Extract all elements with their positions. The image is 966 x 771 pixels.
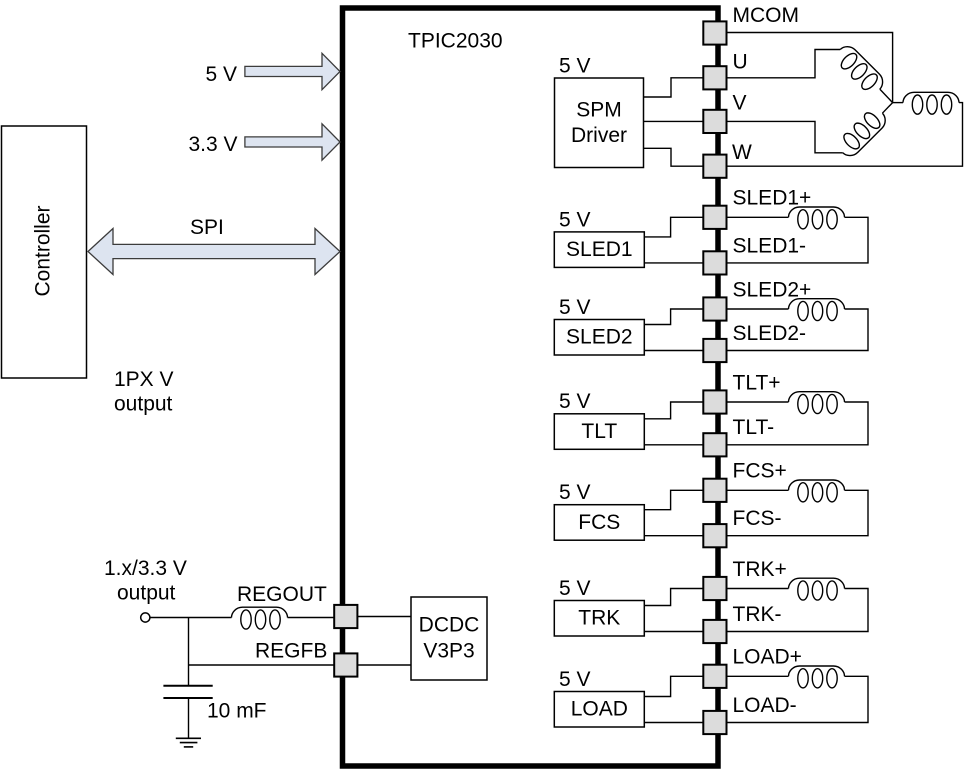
wire TRK+ pin to inductor bbox=[727, 588, 789, 590]
wire LOAD to LOAD+ pin bbox=[644, 676, 703, 696]
svg-text:TRK-: TRK- bbox=[733, 603, 782, 626]
wire TLT to TLT+ pin bbox=[644, 402, 703, 419]
wire terminal to REGOUT inductor bbox=[150, 617, 232, 619]
chip body U1 TPIC2030 bbox=[343, 8, 719, 766]
wire inductor to REGOUT pin bbox=[288, 617, 335, 619]
TRK block bbox=[554, 601, 644, 637]
svg-text:5 V: 5 V bbox=[559, 481, 591, 504]
pin TLT+ bbox=[703, 390, 726, 413]
svg-text:1.x/3.3 V: 1.x/3.3 V bbox=[104, 557, 187, 580]
pin SLED1- bbox=[703, 251, 726, 274]
svg-text:LOAD+: LOAD+ bbox=[733, 646, 802, 669]
wire SLED2+ pin to inductor bbox=[727, 308, 789, 310]
svg-text:output: output bbox=[114, 393, 173, 416]
wire SLED1+ pin to inductor bbox=[727, 216, 789, 218]
terminal (1.x/3.3 V output) bbox=[141, 613, 150, 622]
motor winding U (coil) bbox=[832, 42, 887, 97]
inductor TLT bbox=[789, 392, 845, 414]
inductor SLED2 bbox=[789, 299, 845, 321]
pin FCS- bbox=[703, 524, 726, 547]
wire inductor loop back to FCS- pin bbox=[727, 490, 869, 535]
wire FCS to FCS+ pin bbox=[644, 490, 703, 509]
svg-text:FCS+: FCS+ bbox=[733, 460, 787, 483]
wire SLED1 to SLED1- pin bbox=[644, 262, 703, 264]
wire winding U to center node bbox=[880, 89, 893, 103]
controller box bbox=[2, 126, 87, 378]
svg-text:SLED1+: SLED1+ bbox=[733, 187, 812, 210]
SLED2 block bbox=[554, 320, 644, 356]
node regulator output junction bbox=[188, 618, 190, 686]
svg-text:DCDC: DCDC bbox=[419, 614, 480, 637]
wire SPM to U pin bbox=[644, 78, 704, 97]
svg-text:SPM: SPM bbox=[576, 99, 622, 122]
svg-text:TRK: TRK bbox=[578, 607, 620, 630]
wire inductor loop back to SLED1- pin bbox=[727, 217, 869, 263]
svg-text:3.3 V: 3.3 V bbox=[189, 133, 238, 156]
svg-text:SLED1-: SLED1- bbox=[733, 234, 807, 257]
svg-text:REGFB: REGFB bbox=[255, 640, 327, 663]
svg-text:5 V: 5 V bbox=[559, 54, 591, 77]
LOAD block bbox=[554, 692, 644, 728]
wire REGFB bbox=[189, 664, 335, 666]
inductor TRK bbox=[789, 578, 845, 600]
wire center node to winding W bbox=[893, 102, 903, 104]
SPI bus double arrow bbox=[88, 229, 340, 275]
svg-text:5 V: 5 V bbox=[559, 668, 591, 691]
wire MCOM to motor center bbox=[727, 33, 893, 103]
pin FCS+ bbox=[703, 479, 726, 502]
svg-text:LOAD-: LOAD- bbox=[733, 694, 797, 717]
wire inductor loop back to TLT- pin bbox=[727, 402, 869, 445]
pin SLED2- bbox=[703, 339, 726, 362]
svg-text:SLED2: SLED2 bbox=[566, 326, 633, 349]
svg-text:5 V: 5 V bbox=[559, 390, 591, 413]
svg-text:5 V: 5 V bbox=[559, 296, 591, 319]
svg-text:Controller: Controller bbox=[32, 205, 55, 296]
pin LOAD- bbox=[703, 711, 726, 734]
wire inductor loop back to TRK- pin bbox=[727, 589, 869, 632]
inductor SLED1 bbox=[789, 207, 845, 229]
wire TLT+ pin to inductor bbox=[727, 401, 789, 403]
FCS block bbox=[554, 505, 644, 541]
svg-text:TLT+: TLT+ bbox=[733, 371, 781, 394]
svg-text:5 V: 5 V bbox=[559, 208, 591, 231]
svg-text:TPIC2030: TPIC2030 bbox=[408, 30, 503, 53]
5 V supply arrow bbox=[245, 53, 340, 89]
svg-text:TRK+: TRK+ bbox=[733, 558, 787, 581]
svg-text:SLED1: SLED1 bbox=[566, 238, 633, 261]
svg-text:1PX V: 1PX V bbox=[114, 368, 174, 391]
pin V bbox=[703, 110, 726, 133]
svg-text:TLT: TLT bbox=[581, 420, 617, 443]
svg-text:V: V bbox=[733, 91, 747, 114]
svg-text:SLED2-: SLED2- bbox=[733, 322, 807, 345]
pin LOAD+ bbox=[703, 665, 726, 688]
wire LOAD+ pin to inductor bbox=[727, 675, 789, 677]
pin TRK+ bbox=[703, 577, 726, 600]
motor winding W (coil) bbox=[903, 92, 959, 114]
wire FCS+ pin to inductor bbox=[727, 489, 789, 491]
svg-text:TLT-: TLT- bbox=[733, 416, 775, 439]
capacitor C1 bbox=[163, 686, 212, 698]
wire TRK to TRK- pin bbox=[644, 631, 703, 633]
ground bbox=[176, 738, 201, 747]
motor winding V (coil) bbox=[835, 105, 890, 160]
wire REGOUT pin to DCDC box bbox=[357, 616, 411, 618]
wire SLED2 to SLED2+ pin bbox=[644, 309, 703, 325]
wire REGFB pin to DCDC box bbox=[357, 664, 411, 666]
wire U to motor winding bbox=[727, 50, 841, 78]
pin W bbox=[703, 155, 726, 178]
pin SLED2+ bbox=[703, 297, 726, 320]
pin MCOM bbox=[703, 21, 726, 44]
svg-text:MCOM: MCOM bbox=[733, 4, 800, 27]
wire FCS to FCS- pin bbox=[644, 535, 703, 537]
wire SLED2 to SLED2- pin bbox=[644, 350, 703, 352]
pin U bbox=[703, 66, 726, 89]
inductor LOAD bbox=[789, 666, 845, 688]
svg-text:W: W bbox=[732, 141, 752, 164]
pin REGFB bbox=[334, 653, 357, 676]
pin REGOUT bbox=[334, 605, 357, 628]
svg-text:REGOUT: REGOUT bbox=[237, 583, 327, 606]
SPM Driver block bbox=[555, 78, 644, 168]
svg-text:Driver: Driver bbox=[571, 124, 627, 147]
svg-text:SPI: SPI bbox=[190, 216, 224, 239]
pin TRK- bbox=[703, 620, 726, 643]
wire inductor loop back to SLED2- pin bbox=[727, 309, 869, 351]
pin SLED1+ bbox=[703, 206, 726, 229]
pin TLT- bbox=[703, 433, 726, 456]
svg-text:V3P3: V3P3 bbox=[423, 640, 474, 663]
3.3 V supply arrow bbox=[245, 124, 340, 160]
svg-text:5 V: 5 V bbox=[206, 63, 238, 86]
DCDC V3P3 block bbox=[411, 597, 487, 680]
wire winding V to center node bbox=[882, 103, 892, 114]
wire inductor loop back to LOAD- pin bbox=[727, 676, 869, 722]
svg-text:U: U bbox=[733, 50, 748, 73]
SLED1 block bbox=[554, 232, 644, 268]
wire TLT to TLT- pin bbox=[644, 444, 703, 446]
svg-text:FCS: FCS bbox=[578, 511, 620, 534]
svg-text:LOAD: LOAD bbox=[571, 698, 628, 721]
svg-text:FCS-: FCS- bbox=[733, 507, 782, 530]
wire V to motor winding bbox=[727, 121, 843, 152]
wire TRK to TRK+ pin bbox=[644, 589, 703, 606]
wire winding W to W pin bbox=[727, 103, 963, 167]
inductor FCS bbox=[789, 480, 845, 502]
svg-text:5 V: 5 V bbox=[559, 577, 591, 600]
wire SPM to W pin bbox=[644, 148, 704, 166]
wire LOAD to LOAD- pin bbox=[644, 722, 703, 724]
svg-text:output: output bbox=[117, 582, 176, 605]
inductor L1 REGOUT bbox=[232, 607, 288, 629]
svg-text:SLED2+: SLED2+ bbox=[733, 278, 812, 301]
TLT block bbox=[554, 414, 644, 450]
wire SPM to V pin bbox=[644, 120, 704, 122]
svg-text:10 mF: 10 mF bbox=[207, 700, 267, 723]
wire capacitor to ground bbox=[188, 698, 190, 738]
wire SLED1 to SLED1+ pin bbox=[644, 217, 703, 237]
